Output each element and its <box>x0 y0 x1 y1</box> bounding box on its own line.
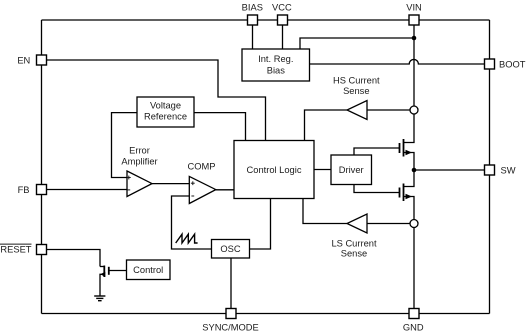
block OSC <box>212 240 250 259</box>
wire LS sense circle to LS Current Sense input <box>367 223 410 225</box>
svg-text:Reference: Reference <box>144 112 187 122</box>
wire left rail <box>41 20 43 314</box>
wire Driver to HS FET gate <box>354 148 399 155</box>
wire HS sense circle to HS FET drain <box>404 114 415 143</box>
label HS Current Sense <box>333 76 380 97</box>
svg-text:Driver: Driver <box>339 165 364 175</box>
transistor reset FET <box>100 266 108 278</box>
wire LS Current Sense output to Control Logic bottom <box>303 199 347 224</box>
comparator COMP <box>189 176 216 203</box>
ground <box>94 296 105 301</box>
wire VIN pin down to HS sense circle <box>413 25 415 106</box>
svg-text:VCC: VCC <box>272 3 292 13</box>
pin RESET <box>37 245 47 255</box>
wire top rail VIN net <box>42 19 490 21</box>
pin BIAS <box>248 15 258 25</box>
wire Control block to reset FET gate <box>110 270 127 272</box>
svg-text:Bias: Bias <box>267 66 285 76</box>
wire LS sense circle to GND pin <box>413 228 415 309</box>
pin SW <box>485 165 495 175</box>
block Control <box>127 260 171 280</box>
wire Int. Reg. Bias to BOOT pin with crossover hop <box>310 59 485 64</box>
op-amp Error Amplifier <box>127 171 152 197</box>
svg-text:Int. Reg.: Int. Reg. <box>258 54 293 64</box>
block Int. Reg. Bias <box>242 49 310 81</box>
junction dot SW node <box>412 168 417 173</box>
svg-text:Sense: Sense <box>341 248 367 258</box>
junction dot VIN node <box>412 36 417 41</box>
wire SW node to LS FET drain <box>404 170 415 187</box>
pin GND <box>409 309 419 319</box>
wire HS FET source to SW node <box>404 153 415 171</box>
svg-text:Error: Error <box>129 145 150 155</box>
svg-text:Amplifier: Amplifier <box>121 156 157 166</box>
LS sense node circle <box>410 220 418 228</box>
wire RESET pin to reset FET drain <box>47 250 101 267</box>
buffer HS Current Sense <box>347 101 367 120</box>
block Driver <box>331 155 372 185</box>
pin EN <box>37 55 47 65</box>
transistor HS FET <box>400 139 413 157</box>
transistor LS FET <box>400 184 413 202</box>
svg-text:BOOT: BOOT <box>499 59 526 69</box>
wire BIAS pin to Int. Reg. Bias <box>252 25 254 49</box>
wire reset FET drain jog <box>100 266 104 268</box>
svg-text:LS Current: LS Current <box>331 238 377 248</box>
pin VIN <box>409 15 419 25</box>
sawtooth waveform symbol <box>176 234 198 243</box>
svg-text:FB: FB <box>18 185 30 195</box>
wire LS FET source to LS sense circle <box>404 197 415 220</box>
svg-text:HS Current: HS Current <box>333 76 380 86</box>
label Error Amplifier <box>121 145 157 166</box>
HS sense node circle <box>410 106 418 114</box>
buffer LS Current Sense <box>347 214 367 233</box>
wire error amplifier output to COMP plus input <box>152 183 189 185</box>
label RESET (active low) <box>0 244 32 254</box>
pin SYNC/MODE <box>226 309 236 319</box>
svg-text:GND: GND <box>403 323 424 333</box>
wire Voltage Reference output to Control Logic top <box>194 113 246 141</box>
pin FB <box>37 185 47 195</box>
wire FB pin to error amplifier minus input <box>47 189 128 191</box>
label LS Current Sense <box>331 238 377 258</box>
svg-text:EN: EN <box>17 55 30 65</box>
wire OSC to SYNC/MODE pin <box>230 258 232 309</box>
svg-text:SYNC/MODE: SYNC/MODE <box>202 323 259 333</box>
wire Voltage Reference input from error amp plus node <box>112 113 138 178</box>
wire OSC output to Control Logic bottom <box>250 199 271 250</box>
wire bottom rail GND net <box>42 313 490 315</box>
svg-text:COMP: COMP <box>188 161 216 171</box>
wire HS Current Sense output to Control Logic top <box>305 110 348 141</box>
wire reset FET source to ground <box>100 274 104 296</box>
svg-text:BIAS: BIAS <box>242 3 263 13</box>
pin VCC <box>278 15 288 25</box>
wire VIN branch to Int. Reg. Bias top <box>300 38 414 49</box>
svg-text:VIN: VIN <box>406 3 422 13</box>
block Control Logic <box>234 141 314 199</box>
wire right rail <box>489 20 491 314</box>
svg-text:Control Logic: Control Logic <box>247 165 302 175</box>
pin BOOT <box>485 59 495 69</box>
block Voltage Reference <box>137 97 194 127</box>
svg-text:RESET: RESET <box>0 244 31 254</box>
svg-text:Control: Control <box>133 265 163 275</box>
wire Control Logic to Driver <box>314 169 331 171</box>
wire COMP output to Control Logic left <box>216 189 235 191</box>
wire COMP minus input to OSC <box>172 196 212 249</box>
svg-text:SW: SW <box>501 166 516 176</box>
svg-text:OSC: OSC <box>220 244 240 254</box>
svg-text:Sense: Sense <box>343 86 369 96</box>
wire VCC pin to Int. Reg. Bias <box>282 25 284 49</box>
wire EN pin to Control Logic top <box>47 60 266 141</box>
wire HS Current Sense input from circle <box>367 109 410 111</box>
svg-text:Voltage: Voltage <box>150 101 181 111</box>
wire SW node to SW pin <box>414 169 485 171</box>
wire Driver to LS FET gate <box>354 185 399 193</box>
